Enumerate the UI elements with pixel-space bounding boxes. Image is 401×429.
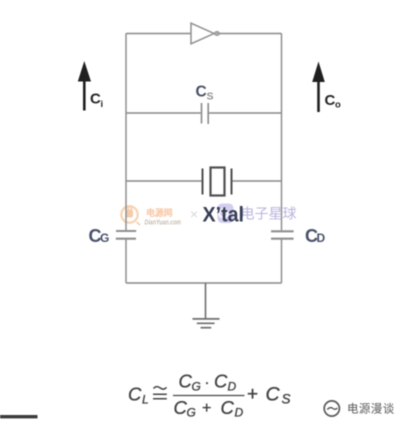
watermark: bottom-right logo circle [324, 401, 339, 416]
wire: right vertical wire (lower part, below CD) [281, 239, 283, 283]
svg-text:D: D [228, 380, 237, 394]
wire: right vertical wire (upper part, above CD) [281, 34, 283, 231]
svg-text:D: D [235, 406, 244, 420]
wire: left vertical wire (upper part, above CG) [125, 34, 127, 231]
svg-text:G: G [187, 406, 196, 420]
wire: top wire of loop [126, 33, 282, 35]
inverter U1 triangle [191, 23, 214, 44]
svg-text:o: o [335, 100, 341, 111]
svg-text:C: C [214, 371, 228, 392]
formula: approximately-equal sign [154, 387, 167, 390]
svg-text:电源漫谈: 电源漫谈 [347, 402, 395, 416]
capacitor CS plates [202, 103, 209, 124]
svg-text:C: C [196, 84, 207, 101]
crystal X1 right plate [231, 169, 233, 195]
svg-text:×: × [190, 206, 198, 222]
watermark: DianYuan orange logo circle [121, 206, 140, 225]
svg-text:C: C [179, 371, 193, 392]
wire: CS rung left segment [126, 112, 201, 114]
wire: ground stub [205, 283, 207, 319]
svg-text:+: + [247, 384, 258, 405]
svg-text:S: S [207, 91, 214, 103]
svg-text:G: G [100, 231, 109, 245]
svg-text:i: i [101, 99, 104, 110]
svg-text:C: C [266, 384, 281, 406]
svg-text:X’tal: X’tal [203, 203, 245, 227]
svg-text:C: C [221, 397, 235, 418]
svg-text:C: C [90, 91, 101, 108]
svg-text:S: S [282, 392, 291, 407]
svg-text:电源网: 电源网 [146, 207, 173, 218]
inverter U1 output bubble [214, 31, 219, 35]
crystal X1 body [211, 168, 225, 196]
watermark: blue star-planet logo circle [218, 204, 234, 224]
arrow Ci (left, upward) [83, 78, 86, 111]
wire: bottom wire of loop [126, 282, 282, 284]
svg-text:C: C [128, 384, 142, 405]
svg-text:+: + [202, 400, 211, 417]
svg-text:DianYuan.com: DianYuan.com [145, 218, 182, 227]
wire: CS rung right segment [209, 112, 282, 114]
svg-text:L: L [142, 393, 149, 407]
svg-text:C: C [325, 92, 336, 109]
capacitor CD plates [271, 231, 294, 238]
ground symbol [193, 318, 220, 320]
svg-text:C: C [174, 397, 188, 418]
svg-text:G: G [192, 380, 201, 394]
wire: crystal rung right segment [232, 180, 281, 182]
crystal X1 left plate [202, 169, 204, 195]
svg-text:·: · [205, 374, 210, 391]
wire: crystal rung left segment [126, 180, 202, 182]
bottom-left divider line [0, 415, 38, 418]
svg-text:D: D [317, 231, 326, 245]
arrow Co (right, upward) [317, 79, 320, 112]
svg-text:电子星球: 电子星球 [241, 206, 297, 222]
formula: fraction bar [173, 395, 245, 397]
capacitor CG plates [116, 231, 136, 239]
wire: left vertical wire (lower part, below CG) [125, 239, 127, 283]
